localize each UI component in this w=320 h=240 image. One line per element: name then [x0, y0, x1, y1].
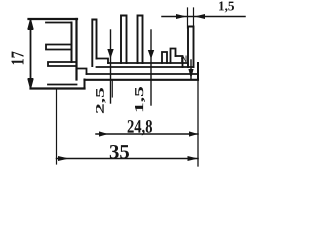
arrowhead left end of 24,8 — [99, 131, 108, 136]
dimension 17 arrows — [28, 20, 33, 30]
extension line left of 35 — [56, 90, 58, 164]
short extension below 2,5 leader — [111, 80, 113, 97]
fin 3 — [138, 16, 143, 64]
extension line right for 24,8 and 35 — [197, 80, 199, 167]
arrowhead down on 2 dimension — [188, 69, 193, 79]
dimension 24,8: line — [96, 133, 198, 135]
arrowhead left end of 35 — [58, 156, 69, 161]
step from clip-block bottom up to base bottom — [84, 80, 86, 89]
platform top edge right of clip block — [77, 69, 87, 75]
dimension 2: line — [190, 60, 192, 79]
clip-block outer bottom edge — [31, 87, 85, 89]
dimension text 17 (rotated) — [12, 52, 24, 65]
heatsink clip-block outer right wall — [75, 19, 77, 80]
heatsink clip-block inner top edge — [46, 22, 72, 24]
end lip fin — [188, 27, 194, 68]
dimension 1,5 top: dimension line — [162, 16, 245, 18]
heatsink clip-block left wall (coincides with 17 dimension line) — [30, 19, 32, 89]
step right of stub fin B — [176, 56, 183, 67]
arrowhead right end of 35 — [188, 156, 199, 161]
arrowhead right end of 24,8 — [189, 131, 198, 136]
arrow blob on 1,5 leader — [148, 50, 154, 59]
leader line for 2,5 — [110, 30, 112, 103]
clip-block upper tongue — [46, 45, 72, 50]
arrow blob on 2,5 leader — [107, 49, 113, 59]
base right edge — [197, 63, 199, 80]
stub fin A — [162, 52, 167, 63]
stub fin B — [171, 49, 176, 64]
leader line for 1,5 (fin gap) — [150, 30, 152, 105]
clip-block inner bottom edge — [48, 84, 77, 86]
arrowhead left of 1,5 top dim — [176, 14, 187, 19]
arrowhead right of 1,5 top dim — [195, 14, 206, 19]
heatsink clip-block inner right wall — [71, 23, 73, 63]
dimension text 2 (rotated) — [181, 56, 187, 63]
base bottom edge — [85, 79, 199, 81]
dimension 1,5 top: extension lines — [188, 8, 194, 28]
arrowhead up on 17 dimension — [28, 20, 33, 31]
rib top line between fins — [108, 62, 188, 64]
clip-block lower tongue — [48, 62, 77, 66]
arrowhead down on 17 dimension — [28, 78, 33, 89]
dimension text 35 — [110, 145, 129, 159]
heatsink clip-block top edge — [29, 18, 78, 20]
base top surface line — [87, 73, 199, 75]
dimension text 1,5 (rotated) — [135, 87, 145, 111]
rib groove line — [97, 66, 194, 68]
ledge right of fin 1 — [97, 59, 109, 64]
dimension 35: line — [57, 158, 199, 160]
fin 1 — [92, 20, 96, 67]
dimension text 1,5 (top right) — [219, 2, 234, 13]
dimension text 24,8 — [128, 120, 152, 136]
dimension text 2,5 (rotated) — [96, 88, 106, 113]
fin 2 — [121, 16, 127, 64]
